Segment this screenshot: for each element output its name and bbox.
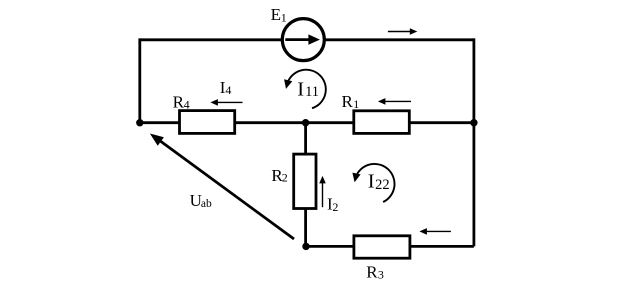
label Uab (190, 191, 212, 210)
loop current I11 arc (284, 70, 326, 109)
svg-text:1: 1 (353, 97, 359, 111)
node a (left junction) (136, 119, 143, 126)
resistor R4 (180, 111, 235, 134)
node right junction (470, 119, 477, 126)
wire top (140, 38, 474, 41)
svg-text:E: E (271, 5, 281, 24)
svg-text:3: 3 (378, 268, 384, 282)
label R3 (366, 262, 384, 281)
svg-text:4: 4 (184, 97, 190, 111)
label I2 (327, 194, 338, 214)
loop current I22 arc (352, 164, 394, 202)
wire middle horizontal (140, 121, 474, 124)
wire left (138, 38, 141, 122)
label I11 (297, 78, 319, 100)
svg-text:I: I (297, 78, 304, 100)
wire R2 branch vertical (304, 123, 307, 247)
arrow voltage Uab (150, 134, 294, 240)
arrow current I4 (210, 99, 242, 106)
label R1 (342, 92, 360, 111)
label I22 (368, 170, 390, 193)
label R4 (173, 93, 190, 112)
arrow current through R1 (378, 98, 411, 105)
resistor R3 (354, 236, 410, 258)
label I4 (220, 78, 232, 97)
svg-text:R: R (342, 92, 354, 111)
svg-text:22: 22 (375, 177, 390, 193)
wire right (472, 38, 475, 246)
resistor R2 (294, 154, 316, 208)
current source E1 (282, 19, 324, 61)
label E1 (271, 5, 287, 24)
svg-text:2: 2 (282, 170, 288, 184)
node middle junction (302, 119, 309, 126)
arrow current through R3 (419, 228, 451, 235)
svg-text:R: R (366, 262, 378, 281)
svg-text:ab: ab (201, 198, 212, 210)
svg-text:11: 11 (305, 84, 319, 100)
label R2 (271, 166, 287, 185)
svg-text:I: I (368, 170, 375, 192)
resistor R1 (354, 111, 410, 134)
svg-text:2: 2 (332, 200, 338, 214)
arrow current top right (388, 28, 417, 35)
arrow current I2 (319, 176, 326, 207)
wire bottom (306, 245, 474, 248)
svg-text:1: 1 (281, 10, 287, 24)
node b (bottom junction) (302, 243, 309, 250)
svg-text:4: 4 (225, 83, 231, 97)
